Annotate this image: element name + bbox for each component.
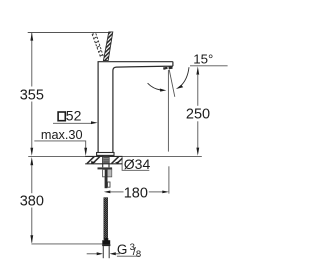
washer plate below deck	[98, 167, 113, 169]
label diameter 34	[122, 156, 150, 172]
extension line at hose end (bottom)	[31, 243, 110, 245]
counter deck slab with hatching	[85, 156, 122, 164]
leader arrows at bottom nut (G3/8 size)	[87, 252, 120, 255]
text 355	[20, 87, 44, 103]
lever handle alternate position (dashed outline, tilted left)	[92, 34, 103, 58]
spray direction tilted line (15 deg)	[169, 70, 175, 97]
threaded rod	[105, 177, 110, 188]
aerator (tilted) at spout tip	[163, 66, 173, 70]
label G 3/8	[117, 242, 141, 260]
base flange of faucet	[97, 153, 114, 156]
svg-text:380: 380	[20, 194, 44, 210]
svg-text:max.30: max.30	[41, 128, 83, 142]
label max.30 with leader to deck	[34, 128, 87, 156]
svg-text:355: 355	[20, 87, 44, 103]
faucet body and spout outline	[98, 62, 173, 153]
dimension line 250 (vertical, right)	[196, 66, 199, 155]
deck level extension line (left to right)	[28, 155, 202, 157]
crimp collar at hose end	[102, 238, 110, 244]
svg-text:180: 180	[124, 186, 148, 202]
swivel arc left segment with arrowhead	[148, 83, 167, 91]
label 15 degrees	[190, 52, 228, 67]
dimension line 380 (vertical, left)	[30, 157, 33, 243]
spray direction vertical extension line	[167, 70, 169, 152]
svg-text:15°: 15°	[193, 52, 213, 67]
svg-text:G: G	[117, 242, 128, 257]
threaded shank through deck	[103, 156, 109, 168]
extension line from lever top to left dimension line	[28, 32, 110, 34]
text 380	[20, 194, 44, 210]
mounting nut below washer	[103, 169, 112, 176]
svg-text:250: 250	[186, 106, 210, 122]
svg-text:52: 52	[66, 107, 82, 123]
G3/8 connection nut	[102, 244, 110, 258]
lever handle (section hatched, tilted right)	[103, 32, 112, 61]
label square 52	[53, 107, 98, 124]
dimension line 355 (vertical, left)	[30, 32, 33, 155]
braided flexible hose	[104, 198, 108, 240]
dimension line 180 (horizontal) with right extension line	[104, 166, 169, 193]
text 250	[186, 106, 210, 122]
svg-text:Ø34: Ø34	[124, 156, 151, 172]
svg-text:8: 8	[136, 249, 141, 260]
text 180	[124, 186, 148, 202]
swivel arc right segment with arrowhead	[176, 67, 189, 89]
